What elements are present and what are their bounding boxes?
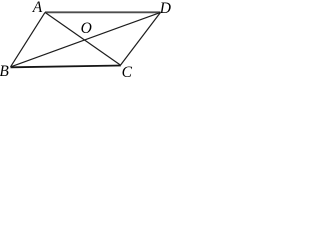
svg-text:D: D bbox=[159, 0, 171, 17]
side AB bbox=[11, 12, 46, 67]
svg-text:A: A bbox=[32, 0, 43, 16]
side CD bbox=[121, 12, 161, 65]
svg-text:B: B bbox=[0, 63, 9, 78]
svg-text:O: O bbox=[81, 20, 92, 37]
diagonal AC bbox=[45, 12, 121, 65]
side BC bbox=[11, 66, 121, 68]
diagonal BD bbox=[11, 12, 161, 67]
side AD bbox=[45, 11, 161, 13]
svg-text:C: C bbox=[122, 64, 133, 78]
